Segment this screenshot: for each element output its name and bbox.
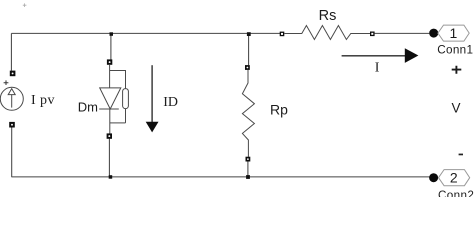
wire current source bottom <box>11 127 13 177</box>
svg-text:2: 2 <box>450 169 458 185</box>
label plus <box>452 66 462 74</box>
svg-text:ID: ID <box>163 95 178 110</box>
Rp terminal bottom <box>246 157 251 162</box>
svg-text:Conn1: Conn1 <box>437 44 473 57</box>
node Conn2 dot <box>429 173 438 182</box>
current source I pv <box>0 71 23 128</box>
resistor Rp <box>242 70 254 157</box>
Rs terminal left <box>280 32 285 37</box>
node junction bottom diode <box>109 175 113 179</box>
svg-text:Rp: Rp <box>270 101 288 117</box>
svg-text:Rs: Rs <box>319 8 337 24</box>
svg-text:Conn2: Conn2 <box>438 189 474 197</box>
node Conn1 dot <box>429 29 438 38</box>
resistor Rs <box>284 26 370 40</box>
svg-text:I pv: I pv <box>31 93 55 108</box>
wire Rs to Conn1 <box>375 32 430 34</box>
svg-text:1: 1 <box>450 25 458 41</box>
diode terminal bottom <box>107 133 112 138</box>
wire diode top branch <box>110 33 112 59</box>
wire diode bottom branch <box>108 139 110 177</box>
wire bottom horizontal <box>11 176 429 178</box>
wire Rp bottom branch <box>247 161 249 177</box>
diode terminal top <box>107 59 112 64</box>
svg-text:I: I <box>375 61 380 76</box>
wire top horizontal <box>11 32 280 34</box>
stray mark <box>23 3 27 7</box>
diode Dm <box>99 65 128 134</box>
svg-text:Dm: Dm <box>78 100 98 115</box>
arrow ID <box>146 65 159 132</box>
wire Rp top branch <box>248 33 250 65</box>
node junction top Rp <box>247 32 251 36</box>
wire left vertical <box>10 33 12 70</box>
arrow I <box>342 48 419 63</box>
node junction bottom Rp <box>246 175 250 179</box>
port Conn1 hexagon <box>438 25 469 41</box>
svg-text:V: V <box>452 101 461 116</box>
node junction top diode <box>110 32 114 36</box>
label minus <box>459 154 463 156</box>
port Conn2 hexagon <box>439 170 470 186</box>
Rp terminal top <box>245 65 250 70</box>
Rs terminal right <box>370 32 375 37</box>
